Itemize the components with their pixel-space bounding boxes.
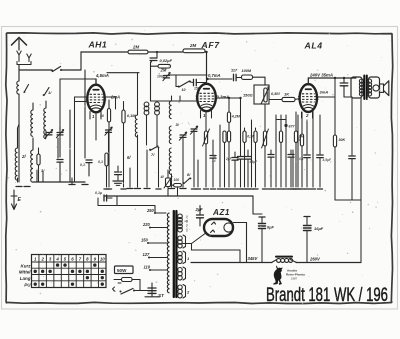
heater winding 1 — [178, 251, 190, 264]
mains lead bracket — [113, 283, 122, 291]
resistor 100M — [237, 69, 265, 80]
svg-text:0,1: 0,1 — [80, 163, 85, 167]
ground T x85 — [82, 183, 88, 185]
coil 2a — [31, 103, 33, 148]
tube label AH1 — [88, 40, 108, 50]
svg-text:3mA: 3mA — [320, 90, 329, 95]
svg-text:240V 35mA: 240V 35mA — [309, 73, 333, 78]
resistor AH1 screen — [121, 102, 136, 190]
wire antenna bus — [19, 69, 81, 71]
wire AVC — [151, 62, 181, 101]
svg-text:117: 117 — [231, 69, 238, 73]
capacitor tone — [340, 78, 352, 97]
svg-text:150Ω: 150Ω — [243, 93, 253, 98]
svg-text:AL4: AL4 — [304, 41, 323, 51]
resistor osc — [98, 153, 109, 189]
antenna plug contacts — [17, 51, 31, 65]
row label Kurz — [21, 263, 32, 268]
tap 127 — [143, 252, 168, 259]
ground bus left — [33, 181, 85, 183]
ground left T1 — [16, 185, 22, 187]
svg-text:0,7mA: 0,7mA — [208, 73, 221, 78]
speaker — [380, 81, 389, 96]
svg-text:4: 4 — [55, 257, 59, 262]
wire heater to AZ1 — [183, 243, 192, 245]
svg-text:16µF: 16µF — [314, 226, 324, 231]
logo stamp figure — [273, 265, 282, 284]
ground T x72 — [69, 178, 75, 185]
tap 110 — [144, 265, 168, 272]
svg-text:0,1: 0,1 — [98, 160, 103, 164]
label 260V — [309, 257, 321, 262]
label 0,7mA — [208, 73, 221, 78]
tube AZ1 envelope — [204, 219, 233, 236]
schematic border frame — [6, 33, 393, 304]
tap 150 — [141, 238, 167, 245]
svg-text:Kurz: Kurz — [21, 263, 32, 268]
svg-text:4,2M: 4,2M — [231, 115, 241, 119]
capacitor 8uF — [259, 217, 275, 263]
capacitor 0,1u left — [80, 160, 92, 176]
svg-text:2: 2 — [40, 257, 44, 262]
capacitor 117 — [231, 69, 238, 81]
IF coil pair — [144, 102, 159, 147]
output transformer primary — [351, 77, 364, 98]
capacitor series — [191, 79, 207, 90]
mains transformer core — [174, 211, 177, 297]
trimmer osc — [105, 127, 112, 152]
filter choke — [272, 257, 297, 263]
label pin 2 AL4 — [302, 112, 313, 118]
row label PU — [24, 282, 31, 287]
capacitor col x58 — [57, 138, 63, 182]
svg-text:150: 150 — [141, 238, 149, 243]
resistor 2M b — [183, 43, 205, 53]
wire junction x157 — [156, 51, 158, 58]
wire col x70 — [69, 110, 71, 182]
capacitor x320 — [317, 115, 332, 189]
capacitor 16uF — [304, 217, 324, 263]
label 150 ohm — [243, 93, 253, 98]
pot volume — [261, 87, 269, 104]
wire AZ1 anode out — [234, 223, 247, 263]
svg-text:250: 250 — [146, 208, 155, 213]
wire AF7 anode row — [205, 51, 232, 80]
svg-text:AZ1: AZ1 — [212, 208, 230, 217]
capacitor 0,02uF — [150, 52, 172, 63]
resistor 1K grid AL4 — [269, 92, 300, 102]
tube AL4 envelope — [298, 84, 318, 112]
band switch 1/ — [43, 88, 53, 96]
label 2uF small — [225, 157, 233, 161]
svg-text:10: 10 — [182, 88, 186, 92]
switch 8/ — [183, 173, 192, 196]
label pin 1 AH1 — [90, 112, 101, 120]
svg-text:0,1: 0,1 — [299, 157, 304, 161]
svg-text:Brandt 181 WK / 196: Brandt 181 WK / 196 — [266, 285, 388, 306]
capacitor + ground mid — [113, 166, 123, 185]
capacitor x351 — [349, 98, 355, 200]
band switch 10 — [176, 75, 191, 92]
svg-text:0,1µ: 0,1µ — [95, 191, 102, 195]
svg-text:2M: 2M — [160, 68, 167, 73]
output transformer core — [364, 76, 367, 100]
wave switch 7 — [149, 146, 161, 189]
label 345V — [248, 256, 259, 261]
svg-text:100M: 100M — [242, 69, 252, 73]
tube label AZ1 — [212, 208, 230, 217]
det coil a — [169, 96, 171, 119]
wire x293 — [290, 150, 295, 189]
wire x265 down — [264, 77, 266, 85]
svg-text:65µF: 65µF — [250, 160, 259, 164]
wire screen x313 — [310, 111, 315, 189]
coil 2b label 2/ — [15, 140, 26, 182]
label 677 junction — [276, 120, 295, 132]
ST interference capacitor — [145, 283, 165, 298]
ground stub x37 — [36, 170, 38, 182]
antenna coil L1 — [17, 81, 19, 182]
mains switch — [113, 289, 152, 296]
svg-text:50W: 50W — [117, 268, 127, 273]
ground stub x43 — [42, 172, 44, 182]
tube AH1 envelope — [86, 85, 106, 113]
tap 220 — [142, 222, 167, 229]
tube label AF7 — [201, 40, 221, 50]
label 4,5mA — [95, 73, 139, 108]
svg-text:220: 220 — [142, 222, 151, 227]
coil 3a — [31, 148, 33, 182]
svg-text:2/: 2/ — [21, 154, 26, 159]
voltage selector label 50W — [115, 266, 134, 274]
wire AL4 anode — [317, 77, 345, 97]
svg-text:AH1: AH1 — [88, 40, 108, 50]
wire col x85 — [84, 70, 86, 158]
svg-text:10: 10 — [100, 257, 105, 262]
ground T x130 — [127, 168, 133, 189]
wire 240V rail — [308, 77, 356, 79]
trimmer C-left2 — [56, 127, 63, 138]
oscillator coil — [135, 108, 137, 187]
set name Brandt 181 WK / 196 — [266, 285, 388, 306]
wire AF7 left grid — [180, 96, 197, 101]
label 0,5M — [271, 91, 280, 96]
label 0,2mA — [217, 95, 230, 100]
winding label column — [185, 215, 189, 232]
svg-text:8µF: 8µF — [267, 225, 275, 230]
earth connection E — [11, 190, 22, 210]
label 3mA — [320, 90, 329, 95]
resistor AL4 cathode — [295, 112, 305, 189]
wire HT bus top — [81, 51, 207, 53]
svg-text:2: 2 — [305, 113, 309, 118]
heater winding mid2 — [178, 267, 186, 280]
trimmer C-left — [45, 130, 52, 138]
wire AF7 anode feed — [216, 97, 242, 99]
svg-text:4V 1A 4V 2A: 4V 1A 4V 2A — [185, 215, 189, 232]
capacitor x307 — [299, 120, 310, 189]
row label Lang — [20, 276, 31, 281]
wire antenna down — [18, 65, 20, 81]
trimmer det2 — [190, 126, 197, 189]
svg-text:110: 110 — [144, 265, 151, 270]
wire y200 right — [335, 199, 361, 201]
AVC pot 4/ — [160, 170, 173, 196]
svg-text:0,2mA: 0,2mA — [217, 95, 230, 100]
svg-text:100: 100 — [174, 178, 180, 182]
tap 250 — [146, 208, 156, 214]
tube AF7 envelope — [196, 84, 218, 111]
band switch contact table — [32, 255, 107, 288]
svg-text:0,5M: 0,5M — [271, 91, 280, 96]
scan speckle noise — [7, 30, 390, 304]
resistor 100 — [172, 178, 182, 196]
output transformer secondary — [367, 77, 379, 98]
resistor osc pad — [37, 148, 45, 182]
label 2mA — [110, 95, 120, 100]
mains transformer primary — [167, 213, 169, 293]
wire AH1 grid cap — [60, 79, 96, 138]
coil shorting switch — [24, 85, 29, 93]
AF anode load network comb — [195, 98, 304, 189]
capacitor 2uF — [195, 206, 204, 227]
fuse — [114, 278, 140, 291]
ground left T2 — [24, 185, 30, 187]
wire 250V feed — [98, 206, 166, 214]
antenna switch — [51, 67, 62, 72]
resistor AH1 cathode — [100, 100, 112, 189]
svg-text:1987: 1987 — [291, 277, 298, 281]
svg-text:2M: 2M — [189, 43, 196, 48]
wire bus riser — [80, 52, 82, 70]
svg-text:Lang: Lang — [20, 276, 31, 281]
wire AH1 grid return — [95, 113, 97, 141]
det coil b — [169, 122, 179, 144]
logo stamp text — [286, 269, 305, 281]
svg-text:677: 677 — [289, 125, 296, 129]
antenna — [12, 38, 27, 51]
label pin 1 AF7 — [201, 111, 212, 119]
label 240V 35mA — [309, 73, 333, 78]
svg-text:34: 34 — [212, 159, 216, 163]
wire left column — [18, 124, 20, 140]
wire x298 — [295, 115, 300, 189]
label 6/ — [127, 155, 131, 160]
resistor 2M a — [128, 45, 148, 54]
wire B+ bus — [191, 262, 361, 264]
resistor x335 50K — [333, 97, 345, 200]
label 56-34 — [212, 155, 216, 163]
wire AF7 grid cap — [206, 52, 208, 84]
svg-text:127: 127 — [143, 252, 151, 257]
chassis bus — [104, 196, 262, 214]
svg-text:100µ: 100µ — [157, 75, 165, 79]
svg-text:30K: 30K — [339, 138, 346, 142]
ground T x137 — [135, 187, 141, 189]
svg-text:2µF: 2µF — [195, 207, 204, 212]
tube label AL4 — [304, 41, 323, 51]
svg-text:260V: 260V — [309, 257, 321, 262]
det coil c — [169, 148, 175, 189]
heater winding 2 — [178, 285, 190, 299]
wire AL4 top cap — [307, 78, 309, 85]
svg-text:Mittel: Mittel — [19, 270, 31, 275]
wire AH1 anode — [105, 97, 116, 109]
wire col x58 — [57, 138, 59, 158]
label 65uF — [250, 160, 259, 164]
wire AZ1 filament — [192, 233, 241, 263]
svg-text:2M: 2M — [298, 135, 305, 139]
coil 3b — [44, 101, 46, 139]
wire mains bottom — [151, 282, 153, 284]
mains transformer secondary mid — [178, 235, 186, 248]
trimmer det1 — [179, 132, 186, 188]
resistor 2M c — [151, 61, 171, 73]
mains transformer secondary hv — [178, 214, 188, 232]
svg-text:50: 50 — [100, 114, 104, 118]
wire AH1 left grid — [75, 97, 88, 182]
svg-text:0,02µF: 0,02µF — [160, 58, 173, 63]
svg-text:4,5mA: 4,5mA — [95, 73, 109, 78]
row label Mittel — [19, 270, 31, 275]
detector box — [254, 85, 269, 104]
svg-text:PU: PU — [24, 282, 31, 287]
ground T x147 — [144, 150, 150, 189]
svg-text:345V: 345V — [248, 256, 259, 261]
trimmer 100u — [157, 73, 207, 81]
table contact dots — [34, 263, 104, 285]
svg-text:2µF: 2µF — [225, 157, 233, 161]
wire x361 speaker return — [360, 98, 362, 263]
capacitor 0,1uF mains — [95, 191, 112, 206]
